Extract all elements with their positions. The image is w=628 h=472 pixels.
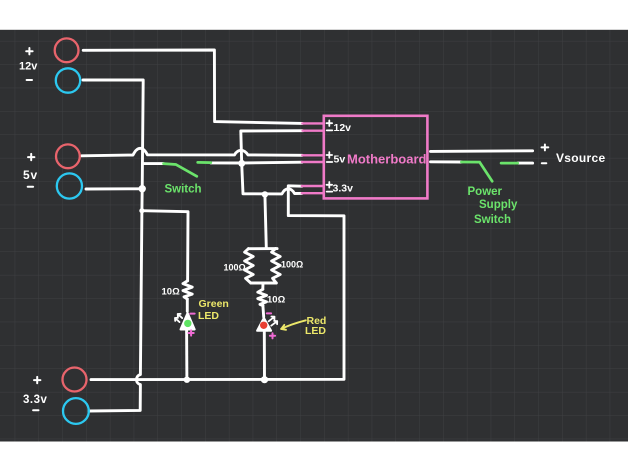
svg-text:12v: 12v	[19, 61, 38, 73]
svg-text:Power: Power	[468, 186, 503, 198]
svg-text:3.3v: 3.3v	[333, 183, 354, 195]
svg-text:Vsource: Vsource	[556, 151, 605, 165]
svg-text:LED: LED	[198, 310, 219, 322]
svg-text:5v: 5v	[23, 168, 38, 182]
svg-text:10Ω: 10Ω	[162, 287, 181, 298]
svg-text:5v: 5v	[334, 154, 346, 166]
svg-text:100Ω: 100Ω	[281, 260, 303, 270]
svg-text:Switch: Switch	[165, 184, 202, 196]
svg-text:100Ω: 100Ω	[224, 263, 246, 273]
svg-text:10Ω: 10Ω	[267, 295, 286, 306]
svg-text:Supply: Supply	[479, 199, 518, 211]
svg-text:Motherboard: Motherboard	[347, 152, 427, 167]
svg-text:12v: 12v	[334, 122, 352, 134]
svg-text:Switch: Switch	[474, 214, 511, 226]
svg-text:3.3v: 3.3v	[23, 394, 47, 406]
svg-text:Green: Green	[199, 298, 229, 310]
svg-text:LED: LED	[305, 325, 326, 337]
